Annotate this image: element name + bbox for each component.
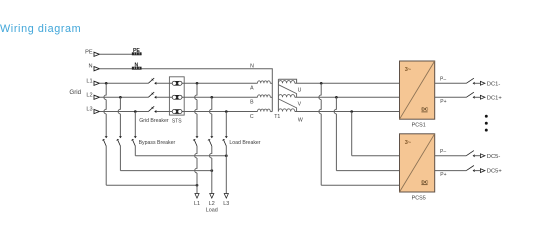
svg-text:PE: PE <box>133 48 140 54</box>
svg-text:DC5+: DC5+ <box>487 169 503 175</box>
svg-text:L1: L1 <box>194 201 200 207</box>
svg-text:L1: L1 <box>86 78 92 84</box>
svg-text:P+: P+ <box>440 99 446 105</box>
svg-text:W: W <box>298 118 303 124</box>
svg-text:L3: L3 <box>86 107 92 113</box>
svg-text:P–: P– <box>440 77 446 83</box>
svg-text:3~: 3~ <box>405 67 412 73</box>
svg-text:PCS1: PCS1 <box>412 123 426 129</box>
svg-text:A: A <box>250 85 254 91</box>
svg-text:L2: L2 <box>209 201 215 207</box>
svg-text:B: B <box>250 100 254 106</box>
svg-text:N: N <box>135 62 139 68</box>
svg-text:Load Breaker: Load Breaker <box>229 140 260 146</box>
svg-text:P+: P+ <box>440 172 446 178</box>
svg-text:Bypass Breaker: Bypass Breaker <box>139 140 176 146</box>
svg-text:DC5-: DC5- <box>487 154 501 160</box>
svg-text:U: U <box>298 88 302 94</box>
svg-text:N: N <box>250 63 254 69</box>
svg-text:DC1+: DC1+ <box>487 95 503 101</box>
svg-text:DC1-: DC1- <box>487 81 501 87</box>
svg-text:PCS5: PCS5 <box>412 195 426 201</box>
svg-text:Grid Breaker: Grid Breaker <box>139 118 169 124</box>
svg-text:Grid: Grid <box>69 89 81 96</box>
svg-text:P–: P– <box>440 149 446 155</box>
svg-text:L3: L3 <box>223 201 229 207</box>
svg-text:3~: 3~ <box>405 140 412 146</box>
svg-text:L2: L2 <box>86 92 92 98</box>
svg-text:C: C <box>250 114 254 120</box>
svg-text:STS: STS <box>172 118 182 124</box>
svg-text:N: N <box>89 64 93 70</box>
svg-text:T1: T1 <box>274 114 280 120</box>
svg-text:PE: PE <box>85 49 93 55</box>
svg-text:Load: Load <box>206 208 218 214</box>
svg-text:V: V <box>298 102 302 108</box>
